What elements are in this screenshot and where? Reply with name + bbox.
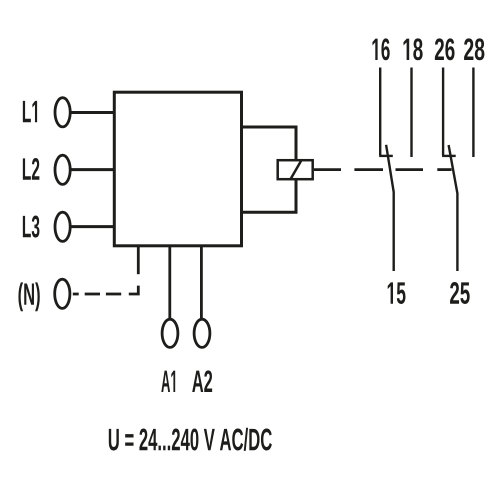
label 25 [450,282,470,304]
label 15 [388,282,406,304]
wire A2 [200,245,203,318]
label L2 [23,158,40,180]
contact 16 seat [379,155,393,157]
contact 18 fixed lead [410,68,412,158]
label 26 [435,38,455,60]
wire L2 to block [71,168,114,171]
wire coil to linkage [314,168,341,171]
wire A1 [168,245,171,318]
wire L3 to block [71,225,114,228]
dashed wire (N) to block [73,293,79,296]
terminal A1 [162,319,178,347]
changeover contact arm 25 [449,145,458,271]
wire (N) riser into block [137,246,140,274]
terminal L2 [55,155,70,184]
label 18 [403,38,422,60]
wire block to coil top [242,127,297,160]
label 28 [464,38,484,60]
relay coil K1 [278,160,313,179]
label (N) [18,282,39,311]
contact 16 fixed lead [379,68,381,156]
changeover contact arm 15 [386,145,394,271]
contact 28 fixed lead [472,68,474,158]
contact 26 fixed lead [442,68,444,156]
coil diagonal stroke [290,160,301,180]
monitoring-relay function block U1 [114,92,241,246]
terminal A2 [194,319,210,347]
label A1 [161,371,175,392]
mechanical linkage dashed line [354,168,383,171]
terminal (N) [55,279,70,308]
wire L1 to block [71,111,114,114]
label 16 [372,38,389,60]
supply rating label [109,428,272,451]
wire block to coil bottom [242,180,297,212]
label L1 [23,101,37,122]
terminal L3 [55,212,70,241]
contact 26 seat [442,155,456,157]
label A2 [192,370,212,392]
label L3 [23,216,40,238]
terminal L1 [55,98,70,127]
